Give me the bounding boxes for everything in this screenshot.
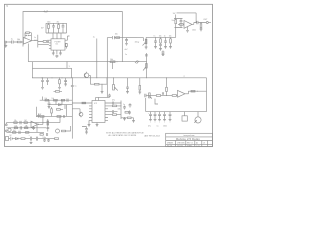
pin stubs right <box>105 103 108 120</box>
diode D3 <box>59 104 62 106</box>
wire lfo row2 <box>7 122 51 124</box>
resistor R14 <box>160 37 162 38</box>
capacitor C40 <box>56 56 59 58</box>
capacitor C10 <box>154 37 157 46</box>
capacitor C2 <box>52 23 55 33</box>
wire <box>32 35 38 48</box>
wire <box>145 98 147 112</box>
op-amp U1 <box>23 37 31 44</box>
svg-text:ALL CAPS RATED 16V OR MORE: ALL CAPS RATED 16V OR MORE <box>109 134 138 137</box>
svg-text:10u: 10u <box>172 20 175 22</box>
svg-text:100u: 100u <box>43 137 47 139</box>
resistor in-line R8 <box>111 61 116 63</box>
capacitor C18 <box>20 126 21 129</box>
ground <box>186 27 189 33</box>
wire <box>120 101 122 120</box>
wire right vertical bus <box>206 78 208 112</box>
svg-text:FX-031: FX-031 <box>167 145 172 147</box>
resistor R17 <box>113 114 117 116</box>
pin stubs left <box>89 103 92 120</box>
svg-text:47u: 47u <box>148 126 151 128</box>
capacitor C9 <box>197 21 207 24</box>
resistor R21 <box>14 127 17 129</box>
resistor R45 <box>40 134 43 136</box>
svg-text:03-2004: 03-2004 <box>177 145 183 147</box>
resistor R31 <box>62 130 66 132</box>
wire <box>49 100 72 104</box>
resistor R30 <box>55 138 59 140</box>
wire riser right <box>47 119 49 132</box>
resistor R44 <box>82 102 86 104</box>
ground <box>101 84 104 93</box>
ground <box>145 47 148 49</box>
jack J2 <box>206 22 208 24</box>
capacitor C12 <box>159 43 162 49</box>
capacitor C5 <box>46 78 49 85</box>
capacitor C35 <box>108 94 111 98</box>
resistor R11 <box>175 20 177 24</box>
svg-text:A4: A4 <box>196 142 198 145</box>
svg-text:4u7: 4u7 <box>125 49 128 51</box>
ground <box>30 142 33 144</box>
resistor R7 <box>95 83 100 85</box>
capacitor C47 <box>71 86 74 87</box>
transistor Q4 <box>79 109 81 113</box>
ground <box>162 55 165 56</box>
svg-text:1: 1 <box>69 66 71 68</box>
svg-text:1u: 1u <box>123 104 125 106</box>
svg-text:10k: 10k <box>45 98 48 100</box>
capacitor C7 <box>126 78 129 92</box>
pin stubs bottom <box>53 50 60 54</box>
resistor R29 <box>21 138 25 140</box>
wire top chain <box>40 99 73 101</box>
resistor R23 <box>40 116 44 118</box>
IC U3 <box>33 68 72 78</box>
svg-text:+: + <box>148 113 149 115</box>
pin stubs left <box>49 40 51 48</box>
resistor R13 <box>201 22 202 23</box>
ground <box>132 118 135 123</box>
svg-text:NOTE: ALL RESISTORS 1/4W CARBO: NOTE: ALL RESISTORS 1/4W CARBON FILM <box>106 131 144 134</box>
wire lfo row4 <box>7 131 45 133</box>
resistor R39 vertical <box>47 121 49 125</box>
capacitor diagonal C6 <box>135 60 139 63</box>
ground <box>48 107 51 109</box>
wire <box>146 95 156 97</box>
ground <box>154 47 157 49</box>
wire <box>9 41 17 43</box>
svg-text:47u: 47u <box>57 22 60 24</box>
capacitor C26 <box>149 112 152 120</box>
ground <box>169 120 172 122</box>
wire rc ladder rail <box>146 36 176 38</box>
resistor R18 <box>125 112 129 114</box>
wire mid horizontal bus <box>28 61 146 63</box>
resistor R3 <box>48 25 50 29</box>
svg-text:1u: 1u <box>75 86 77 88</box>
capacitor C3 <box>62 23 65 33</box>
resistor R33 <box>191 90 195 92</box>
capacitor C32 <box>145 55 148 56</box>
wire wiper <box>137 38 144 41</box>
svg-text:100n: 100n <box>192 29 196 31</box>
capacitor C14 <box>108 110 118 113</box>
capacitor C17 <box>20 121 21 124</box>
svg-text:10k: 10k <box>15 125 18 127</box>
jack J4 <box>5 124 7 126</box>
IC U1 <box>51 39 65 50</box>
capacitor C20 <box>64 115 65 118</box>
svg-text:10k: 10k <box>17 39 20 41</box>
svg-text:4k7: 4k7 <box>13 130 16 132</box>
wire top-right supply rail <box>177 13 197 23</box>
pin stubs right <box>65 40 68 46</box>
resistor R25 <box>45 99 49 101</box>
svg-text:10k: 10k <box>14 120 17 122</box>
svg-text:CHECKED: CHECKED <box>177 143 186 145</box>
wire <box>21 41 23 43</box>
ground <box>138 92 141 94</box>
capacitor C15 <box>123 106 126 110</box>
op-amp U4 <box>184 21 192 29</box>
potentiometer P5 <box>149 93 151 98</box>
wire <box>39 116 43 124</box>
svg-text:10k: 10k <box>110 59 113 61</box>
svg-text:IC1: IC1 <box>56 44 59 46</box>
capacitor C29 <box>163 112 166 120</box>
ground <box>169 47 172 49</box>
op-amp U6 <box>31 121 38 127</box>
svg-text:REV 2.5: REV 2.5 <box>187 143 193 145</box>
wire <box>175 28 183 38</box>
svg-text:1u: 1u <box>125 54 127 56</box>
node <box>30 122 31 123</box>
resistor R27 vertical <box>51 109 53 113</box>
resistor R2 <box>26 32 30 34</box>
svg-text:LAST REV 03-2004: LAST REV 03-2004 <box>144 135 160 138</box>
pin stubs top <box>96 97 110 100</box>
capacitor C48 <box>67 99 68 102</box>
svg-text:.5: .5 <box>6 5 9 8</box>
wire delay feedback <box>96 39 98 78</box>
potentiometer P4 <box>195 117 201 123</box>
capacitor C43 <box>64 78 67 84</box>
potentiometer P3 <box>145 37 147 47</box>
wire lfo row3 <box>7 127 47 129</box>
svg-text:4u7: 4u7 <box>44 10 49 14</box>
svg-text:1u: 1u <box>93 37 95 39</box>
svg-text:100n: 100n <box>47 22 51 24</box>
ground <box>159 49 162 51</box>
resistor R15 <box>170 37 172 38</box>
ground <box>88 120 91 126</box>
transistor Q3 <box>56 129 60 133</box>
wire <box>89 76 95 85</box>
capacitor C38 <box>25 35 31 36</box>
wire <box>25 33 31 41</box>
wire <box>127 37 138 39</box>
capacitor C45 <box>112 36 114 39</box>
svg-text:4k7: 4k7 <box>34 40 37 42</box>
resistor R16 <box>113 105 117 107</box>
resistor R26 <box>54 99 58 101</box>
svg-text:47u: 47u <box>112 100 115 102</box>
svg-text:5V: 5V <box>41 28 44 30</box>
svg-text:1u: 1u <box>11 38 13 40</box>
resistor R28 <box>57 116 61 118</box>
svg-text:OUT: OUT <box>203 19 208 21</box>
wire riser <box>36 107 38 117</box>
resistor R9 <box>139 78 141 86</box>
capacitor C30 <box>169 112 172 120</box>
wire <box>72 103 89 109</box>
wire <box>174 15 183 19</box>
capacitor C4 <box>41 78 44 88</box>
capacitor C33 <box>145 94 146 97</box>
jack J5 <box>5 130 7 132</box>
ground <box>52 53 55 55</box>
resistor R35 vertical <box>166 92 168 96</box>
wire vertical V2 <box>106 38 108 98</box>
capacitor C27 <box>154 112 157 120</box>
resistor R48 <box>61 99 64 101</box>
capacitor C8 <box>180 19 183 28</box>
ground <box>41 87 44 89</box>
ground <box>164 47 167 49</box>
ground <box>58 87 61 89</box>
wire <box>99 78 107 84</box>
capacitor C16 <box>129 103 132 107</box>
svg-text:1n: 1n <box>154 35 156 37</box>
wire output row <box>189 91 207 94</box>
wire <box>68 36 70 40</box>
capacitor C19 <box>32 126 35 130</box>
resistor R20 <box>24 122 27 124</box>
battery B1 <box>11 137 16 141</box>
ground <box>96 123 99 127</box>
wire riser <box>43 97 67 117</box>
svg-text:1u: 1u <box>34 37 36 39</box>
svg-text:SHEET: SHEET <box>187 145 192 147</box>
resistor R36 <box>172 95 176 97</box>
ground <box>4 43 7 48</box>
capacitor C1 <box>12 40 13 43</box>
wire riser <box>50 116 60 122</box>
svg-text:1/1: 1/1 <box>203 143 205 145</box>
sheet border <box>5 4 213 146</box>
svg-text:1u: 1u <box>157 126 159 128</box>
ground left <box>37 114 40 118</box>
svg-text:DRAWN: DRAWN <box>167 142 174 145</box>
diode D1 <box>16 138 22 140</box>
svg-text:1n: 1n <box>164 35 166 37</box>
ground <box>64 84 67 86</box>
jack J1 <box>5 41 7 43</box>
capacitor C36 <box>19 131 20 134</box>
capacitor C44 <box>47 133 48 136</box>
resistor R34 <box>156 95 160 97</box>
resistor R40 <box>57 109 61 111</box>
capacitor C24 <box>47 139 50 142</box>
node A <box>23 42 24 43</box>
transistor Q1 <box>84 73 89 78</box>
wire <box>107 37 126 39</box>
svg-text:10k: 10k <box>159 35 162 37</box>
svg-text:10k: 10k <box>115 33 118 35</box>
capacitor C11 <box>164 37 167 46</box>
potentiometer P2 <box>146 64 148 69</box>
ground <box>154 120 157 122</box>
capacitor C49 <box>48 103 51 106</box>
svg-text:10k: 10k <box>169 35 172 37</box>
capacitor C13 <box>108 102 121 105</box>
resistor R42 <box>66 44 68 47</box>
potentiometer P1 <box>113 78 115 85</box>
resistor R41 <box>43 41 46 43</box>
capacitor C21 <box>30 137 36 141</box>
svg-text:1 of 1: 1 of 1 <box>196 145 200 147</box>
svg-text:Rebote 2.5 Delay: Rebote 2.5 Delay <box>176 137 200 141</box>
ground <box>149 120 152 122</box>
wire vertical column right <box>145 53 147 78</box>
ground <box>123 117 126 121</box>
wire output <box>192 23 196 25</box>
capacitor C23 <box>43 139 46 142</box>
dc jack J3 <box>6 137 9 141</box>
IC U5 PT2399 <box>92 101 105 123</box>
resistor R6 <box>56 91 60 93</box>
ground <box>200 29 203 31</box>
svg-text:10k: 10k <box>118 109 121 111</box>
wire to IC1 <box>38 42 49 45</box>
title block <box>166 133 213 146</box>
capacitor C34 <box>162 92 163 95</box>
capacitor C46 <box>125 38 128 44</box>
resistor R38 <box>26 132 29 134</box>
resistor R4 <box>58 25 60 29</box>
resistor R5 <box>59 77 60 78</box>
capacitor C41 <box>162 51 165 55</box>
resistor R1 <box>17 41 21 43</box>
svg-text:IC2: IC2 <box>94 103 98 105</box>
ground <box>59 53 62 55</box>
capacitor C28 <box>158 112 161 120</box>
node 5V rail <box>46 22 67 24</box>
wire <box>27 44 29 62</box>
capacitor C25 <box>82 127 88 133</box>
wire left vertical bus <box>71 78 73 139</box>
wire caps row rail <box>146 111 207 113</box>
resistor R43 <box>128 117 132 119</box>
ground <box>163 120 166 122</box>
wire lfo row1 <box>37 115 73 117</box>
resistor R19 <box>14 122 17 124</box>
resistor R12 <box>178 23 180 25</box>
node pins <box>41 77 42 78</box>
regulator U7 <box>182 116 187 121</box>
capacitor C37 <box>46 127 49 128</box>
resistor R47 <box>116 37 120 39</box>
ground <box>125 43 128 45</box>
wire riser <box>36 123 38 133</box>
node <box>42 77 43 78</box>
wire stub <box>155 99 158 104</box>
node junction <box>67 61 68 62</box>
wire riser <box>48 100 50 103</box>
op-amp U2 <box>178 90 186 97</box>
svg-text:10k: 10k <box>52 98 55 100</box>
resistor R22 <box>25 127 28 129</box>
capacitor C39 <box>48 40 49 43</box>
capacitor C42 <box>128 111 131 115</box>
ground <box>85 132 88 134</box>
transistor Q2 <box>8 128 11 131</box>
svg-text:delay: delay <box>135 42 139 44</box>
ground <box>158 120 161 122</box>
wire <box>42 138 55 140</box>
wire <box>46 23 67 39</box>
svg-text:100n: 100n <box>163 126 167 128</box>
capacitor C22 <box>36 137 42 141</box>
svg-text:9V: 9V <box>10 135 13 137</box>
wire stub <box>111 62 113 69</box>
resistor R37 <box>13 132 16 134</box>
ground <box>126 92 129 94</box>
wire top rail <box>23 12 122 62</box>
wire long mid rail <box>32 77 207 79</box>
